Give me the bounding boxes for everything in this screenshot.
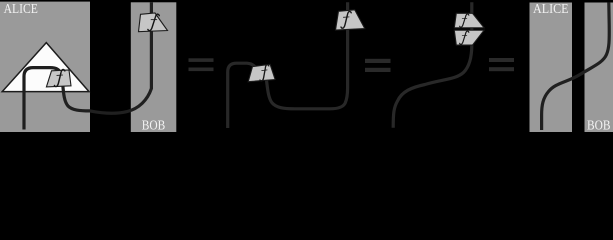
svg-text:ALICE: ALICE	[533, 1, 569, 16]
panel ALICE strip (right diagram)	[530, 3, 573, 133]
wire panel 2: from mid box down through U up to top box	[266, 2, 348, 109]
label BOB (right strip, centered)	[587, 118, 611, 133]
box f top of panel 2	[336, 10, 365, 30]
svg-text:BOB: BOB	[587, 118, 611, 133]
triangle (Alice measurement)	[2, 43, 89, 92]
f label of panel3 lower box	[460, 31, 469, 44]
equals sign 2	[365, 59, 391, 72]
f label of triangle box	[53, 69, 66, 86]
box f in Bob strip	[139, 13, 168, 32]
label BOB bottom of left Bob strip	[142, 118, 166, 133]
f label of Bob box	[148, 14, 159, 30]
panel ALICE (left)	[0, 2, 90, 132]
box f lower (transposed) of panel 3	[454, 30, 484, 45]
wire hook (panel 2 left)	[228, 63, 255, 128]
wire right panel: S curve Alice strip to Bob strip	[542, 2, 610, 130]
box f upper of panel 3	[454, 13, 484, 27]
wire cap inside triangle with left leg	[24, 68, 61, 130]
panel BOB strip (right diagram)	[585, 3, 613, 133]
svg-text:BOB: BOB	[142, 118, 166, 133]
panel BOB strip (left diagram)	[131, 2, 177, 132]
label ALICE top-left	[4, 1, 38, 16]
wire panel 3: S curve from top through boxes to bottom left	[393, 2, 472, 127]
svg-text:ALICE: ALICE	[4, 1, 38, 16]
equals sign 1	[189, 58, 214, 71]
box f middle of panel 2 (tilted)	[248, 64, 275, 81]
f label of panel2 top box	[340, 11, 352, 28]
f label of panel3 upper box	[460, 14, 469, 27]
equals sign 3	[489, 58, 514, 71]
label ALICE (right strip, centered)	[533, 1, 569, 16]
wire from box f down, right, across gap, up into Bob strip	[63, 2, 152, 113]
f label of panel2 mid box	[258, 65, 271, 82]
box f inside triangle	[46, 70, 71, 87]
